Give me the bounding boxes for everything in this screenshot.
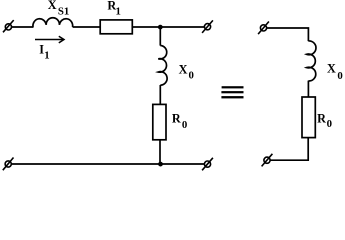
svg-text:R: R [172,112,181,126]
svg-text:0: 0 [337,70,342,82]
svg-text:0: 0 [189,70,194,82]
wire R0 to bottom right circuit [270,138,308,161]
svg-text:0: 0 [327,118,332,130]
terminal BL [3,158,14,171]
svg-text:1: 1 [44,50,49,62]
terminal TR [202,20,213,33]
resistor R0 left circuit [153,104,166,139]
svg-text:R: R [317,111,326,125]
inductor X0 left circuit [158,46,167,86]
terminal B right circuit [262,154,273,167]
bottom wire [11,163,204,165]
label R1 [107,0,121,18]
inductor XS1 [33,18,73,27]
svg-text:S1: S1 [58,6,69,18]
svg-text:X: X [179,63,188,77]
resistor R1 [100,20,132,34]
svg-text:0: 0 [182,119,187,131]
wire junction down to X0 [159,27,161,46]
wire top right circuit [267,28,309,41]
label I1 [39,43,49,62]
node junction bottom [158,162,163,167]
inductor X0 right circuit [307,41,316,81]
resistor R0 right circuit [302,97,315,138]
terminal TL [3,20,14,32]
wire between inductor and R1 [73,26,100,28]
svg-text:X: X [48,0,57,12]
label X0 left [179,63,194,82]
wire R1 to top-right terminal [132,26,204,28]
label X0 right [327,62,343,83]
svg-text:X: X [327,62,336,76]
svg-text:1: 1 [116,6,121,18]
wire R0 to bottom [159,140,161,164]
wire X0 to R0 [159,85,161,104]
terminal BR [202,158,213,171]
label XS1 [48,0,70,18]
terminal T right circuit [258,22,269,35]
label R0 left [172,112,187,131]
label R0 right [317,111,332,130]
wire X0 to R0 right [307,81,309,97]
wire top-left [12,26,34,28]
equivalence symbol [221,86,243,98]
node junction top [158,25,163,30]
current arrow I1 [35,36,64,43]
